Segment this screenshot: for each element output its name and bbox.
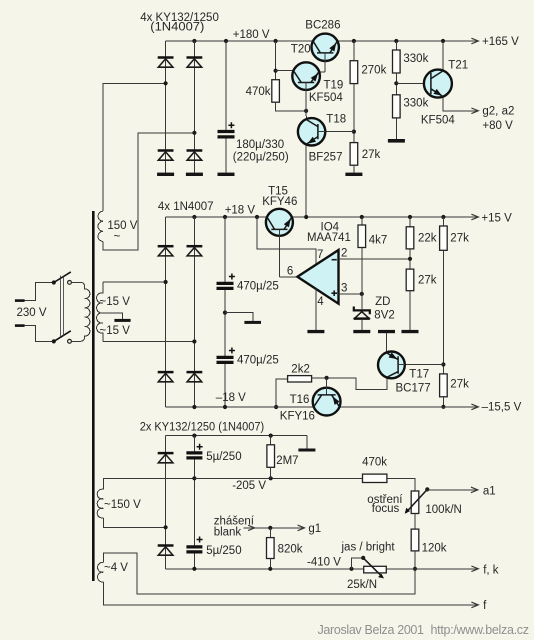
svg-text:+15 V: +15 V <box>481 212 512 224</box>
wire cap470-2 bottom <box>224 364 226 407</box>
wire cap 180u bottom <box>225 139 227 173</box>
capacitor 5u/250 upper <box>186 444 202 458</box>
node 120k / f,k <box>413 567 417 571</box>
wire 470k to focus pot <box>387 478 415 491</box>
svg-text:2: 2 <box>341 248 347 260</box>
zener diode ZD 8V2 <box>354 307 370 319</box>
transistor T18 (BF257) <box>298 118 325 145</box>
resistor 330k upper <box>393 50 401 73</box>
resistor 820k <box>267 538 275 559</box>
node trimmer left <box>349 567 353 571</box>
svg-text:470µ/25: 470µ/25 <box>237 281 279 293</box>
svg-text:g2, a2: g2, a2 <box>482 106 514 118</box>
wire opamp V+ (pin7) <box>257 217 316 264</box>
node 27k / -15.5V rail <box>441 405 445 409</box>
svg-text:~: ~ <box>114 231 121 243</box>
node pin3 / 4k7 / ZD <box>360 292 364 296</box>
svg-text:BC286: BC286 <box>305 20 340 32</box>
svg-text:27k: 27k <box>450 378 469 390</box>
wire -410V / f,k rail <box>166 568 478 570</box>
wire T21 collector <box>442 41 444 71</box>
wire trimmer wiper link <box>352 558 364 569</box>
resistor 27k middle <box>406 269 414 291</box>
svg-text:270k: 270k <box>361 65 386 77</box>
mains terminal L <box>15 299 25 302</box>
wire upper bridge right leg <box>193 41 195 173</box>
node pin2 divider <box>408 257 412 261</box>
resistor 470k <box>272 80 280 103</box>
wire 270k to T18 base node <box>353 84 355 143</box>
capacitor 470u/25 upper <box>217 274 235 289</box>
svg-text:blank: blank <box>214 527 242 539</box>
node upper bridge right AC input <box>192 131 196 135</box>
svg-text:http:/www.belza.cz: http:/www.belza.cz <box>431 623 530 637</box>
svg-text:KF504: KF504 <box>309 92 343 104</box>
wire -18V rail <box>166 406 314 408</box>
arrow blank injection <box>244 525 256 530</box>
ground ZD <box>353 330 370 333</box>
ground pin4 <box>307 330 324 333</box>
wire 22k-27k junction <box>409 249 411 269</box>
node middle bridge left AC <box>164 280 168 284</box>
wire 2M7 top <box>270 436 272 445</box>
svg-text:T16: T16 <box>290 394 310 406</box>
wire 27k right to T17 base node <box>442 250 444 374</box>
arrow output f,k <box>471 566 478 572</box>
wire T18 emitter to +15V rail <box>305 144 307 217</box>
wire 150V winding top to upper bridge left AC <box>103 83 166 211</box>
ground 27k divider <box>402 330 419 333</box>
svg-text:(1N4007): (1N4007) <box>150 21 204 33</box>
transistor T19 (KF504) <box>292 62 320 111</box>
svg-text:–18 V: –18 V <box>216 392 246 404</box>
resistor 270k <box>350 61 358 84</box>
svg-text:6: 6 <box>287 266 293 278</box>
svg-text:27k: 27k <box>450 233 469 245</box>
svg-text:4x 1N4007: 4x 1N4007 <box>158 201 214 213</box>
node rail-4k7 <box>360 215 364 219</box>
node rail-330k <box>394 39 398 43</box>
wire -205V rail <box>194 477 362 479</box>
svg-text:25k/N: 25k/N <box>347 579 377 591</box>
svg-text:5µ/250: 5µ/250 <box>206 545 241 557</box>
arrow output g2,a2 <box>471 108 478 114</box>
transistor T16 (KFY16) <box>313 378 341 416</box>
svg-text:150 V: 150 V <box>107 220 137 232</box>
transistor T20 (BC286) <box>312 34 339 72</box>
wire T21 base <box>396 82 424 84</box>
wire ~4V bottom to f rail <box>103 582 478 605</box>
wire 820k bottom <box>269 528 271 538</box>
svg-text:230 V: 230 V <box>17 307 47 319</box>
node lower left AC input <box>164 525 168 529</box>
svg-text:BF257: BF257 <box>309 151 343 163</box>
svg-text:KFY46: KFY46 <box>262 196 297 208</box>
wire cap470-1 top <box>224 217 226 282</box>
wire mains N to switch <box>25 326 54 342</box>
svg-text:(220µ/250): (220µ/250) <box>233 151 289 163</box>
wire middle bridge right leg <box>193 217 195 407</box>
wire T18 base <box>325 131 354 133</box>
mains terminal N <box>15 324 25 327</box>
wire 15V winding bottom to middle bridge right AC <box>103 341 194 343</box>
wire opamp V- (pin4) <box>315 289 317 330</box>
wire right leg bottom <box>193 554 195 569</box>
diode D4 <box>187 151 203 161</box>
capacitor 180u/330 <box>218 122 235 137</box>
wire ~150V bottom to lower rectifier left AC <box>103 518 165 528</box>
potentiometer 100k/N focus <box>405 489 428 513</box>
node middle bridge right AC <box>192 339 196 343</box>
wire T17 collector to T16 base node <box>327 377 388 389</box>
diode D9 <box>158 453 174 463</box>
transistor T21 (KF504) <box>424 70 452 98</box>
resistor 27k lower right <box>440 374 448 397</box>
wire T15 base to pin6 <box>279 276 297 278</box>
svg-text:ZD: ZD <box>375 296 390 308</box>
svg-text:330k: 330k <box>403 53 428 65</box>
wire top rail to ground <box>306 436 308 449</box>
resistor 2k2 <box>288 376 312 382</box>
node rail-27k right <box>441 215 445 219</box>
arrow output +15V <box>471 214 478 220</box>
svg-text:+165 V: +165 V <box>482 36 519 48</box>
svg-text:–15,5 V: –15,5 V <box>482 402 522 414</box>
resistor 4k7 <box>358 225 366 248</box>
svg-text:T19: T19 <box>324 80 344 92</box>
svg-text:KFY16: KFY16 <box>280 411 315 423</box>
wire 820k to -410V rail <box>269 559 271 569</box>
wire T17 emitter <box>386 333 388 353</box>
svg-text:470k: 470k <box>246 86 271 98</box>
node leg2 / -410V <box>192 567 196 571</box>
wire T21 emitter to g2 output <box>443 97 478 111</box>
svg-text:T20: T20 <box>291 44 311 56</box>
wire 27k to ground <box>409 291 411 330</box>
wire 330k to ground <box>395 118 397 139</box>
svg-text:330k: 330k <box>403 98 428 110</box>
node top rail leg2 <box>192 434 196 438</box>
wire -15.5V rail <box>339 406 478 408</box>
wire +15V rail <box>292 216 478 218</box>
wire T19 collector <box>276 70 294 72</box>
resistor 470k series (focus) <box>363 474 387 482</box>
svg-text:27k: 27k <box>418 274 437 286</box>
transistor T17 (BC177) <box>378 352 405 379</box>
svg-text:zhášení: zhášení <box>214 515 255 527</box>
wire ZD to ground <box>361 320 363 330</box>
svg-text:jas / bright: jas / bright <box>341 542 396 554</box>
transformer TR core <box>92 211 95 581</box>
svg-text:+18 V: +18 V <box>225 204 256 216</box>
wire cap 180u top <box>225 41 227 130</box>
svg-text:5µ/250: 5µ/250 <box>206 451 241 463</box>
node T18 base / 27k <box>352 130 356 134</box>
diode D1 <box>158 58 174 68</box>
wire T18 collector stub <box>305 111 307 120</box>
capacitor 470u/25 lower <box>217 348 235 363</box>
node rail-opamp supply <box>255 215 259 219</box>
diode D2 <box>187 58 203 68</box>
node cap470 / -18V <box>223 405 227 409</box>
svg-text:470k: 470k <box>362 456 387 468</box>
node 820k / -410V <box>268 567 272 571</box>
ground upper bridge left <box>157 173 174 176</box>
node 820k top <box>268 526 272 530</box>
svg-text:-410 V: -410 V <box>307 557 341 569</box>
transformer secondary winding ~4V <box>98 562 104 582</box>
wire 15V winding top to middle bridge left AC <box>103 281 166 283</box>
arrow output -15.5V <box>471 404 478 410</box>
wire a1 output <box>427 489 477 491</box>
ground caps midpoint <box>244 321 261 324</box>
svg-text:120k: 120k <box>422 542 447 554</box>
transformer primary winding 230V <box>71 282 90 341</box>
svg-text:~4 V: ~4 V <box>104 562 128 574</box>
node -205V junction <box>192 476 196 480</box>
svg-text:a1: a1 <box>483 485 496 497</box>
node T16 base <box>325 376 329 380</box>
node T21 base <box>394 81 398 85</box>
node rail-470k <box>274 39 278 43</box>
svg-text:2k2: 2k2 <box>291 364 310 376</box>
wire 4k7 top <box>361 217 363 225</box>
transistor T15 (KFY46) <box>266 209 293 277</box>
wire 270k top <box>353 41 355 61</box>
diode D10 <box>158 546 174 556</box>
svg-text:22k: 22k <box>418 233 437 245</box>
transformer secondary winding 150V (top) <box>98 211 103 241</box>
svg-text:f, k: f, k <box>483 564 499 576</box>
arrow output +165V <box>471 38 478 44</box>
resistor 330k lower <box>393 95 401 118</box>
node T19 base / T18 collector <box>304 109 308 113</box>
arrow output g1 <box>298 525 305 531</box>
wire 2k2 left leg <box>276 379 288 407</box>
svg-text:Jaroslav Belza 2001: Jaroslav Belza 2001 <box>318 623 425 637</box>
node 2M7 bottom <box>269 476 273 480</box>
node rail-T21 collector <box>441 39 445 43</box>
wire T19 emitter to T20 base <box>319 71 325 73</box>
wire upper bridge left leg <box>165 41 167 173</box>
arrow output f <box>471 602 478 608</box>
resistor 2M7 <box>267 445 275 468</box>
svg-text:T21: T21 <box>448 59 468 71</box>
wire T17 base <box>405 364 444 366</box>
svg-text:T18: T18 <box>326 114 346 126</box>
node 470k / T19 collector <box>274 69 278 73</box>
resistor 120k <box>411 529 419 551</box>
node 2k2 on -18V rail <box>274 405 278 409</box>
diode D7 <box>158 372 174 382</box>
wire 470k tap <box>275 41 277 80</box>
node top rail 2M7 <box>269 434 273 438</box>
resistor 27k right <box>440 226 448 250</box>
wire 15V center tap <box>103 313 123 319</box>
node rail-22k <box>408 215 412 219</box>
svg-text:focus: focus <box>372 503 400 515</box>
wire +165V rail <box>337 40 478 42</box>
trimmer 25k/N <box>363 558 386 579</box>
svg-text:~15 V: ~15 V <box>100 325 131 337</box>
ground lower rectifier <box>298 449 315 452</box>
op-amp IO4 MAA741 <box>297 250 338 304</box>
ground cap 180u <box>218 173 235 176</box>
node T17 base junction <box>441 362 445 366</box>
wire 330k junction <box>395 73 397 95</box>
wire 22k top <box>409 217 411 227</box>
wire focus pot to 120k <box>414 514 416 530</box>
svg-text:KF504: KF504 <box>421 115 455 127</box>
wire 4k7 bottom <box>361 248 363 310</box>
wire right leg mid <box>193 460 195 546</box>
svg-text:g1: g1 <box>308 523 321 535</box>
wire mains L to switch <box>25 283 54 301</box>
wire lower right leg top <box>193 436 195 452</box>
wire 27k lower to rail <box>442 397 444 407</box>
wire 2M7 bottom <box>270 467 272 478</box>
svg-text:T17: T17 <box>409 369 429 381</box>
ground T17 emitter <box>378 330 395 333</box>
svg-text:BC177: BC177 <box>396 383 431 395</box>
resistor 27k (T18) <box>350 143 358 166</box>
svg-text:8V2: 8V2 <box>374 310 394 322</box>
node leg2 / -18V <box>192 405 196 409</box>
wire 2k2 to T16 base node <box>312 377 327 379</box>
svg-text:2M7: 2M7 <box>276 455 298 467</box>
wire ~4V top to f,k node <box>103 553 415 594</box>
node rail-cap470 <box>223 215 227 219</box>
arrow output a1 <box>471 487 478 493</box>
svg-text:~15 V: ~15 V <box>100 296 131 308</box>
svg-text:~150 V: ~150 V <box>104 499 141 511</box>
node rail-cap <box>224 39 228 43</box>
svg-text:100k/N: 100k/N <box>425 504 461 516</box>
svg-text:MAA741: MAA741 <box>307 232 351 244</box>
ground center tap <box>114 319 130 322</box>
wire 27k to ground <box>353 165 355 172</box>
wire 150V winding bottom to upper bridge right AC <box>103 133 195 250</box>
wire 120k to f,k rail <box>414 551 416 569</box>
svg-text:180µ/330: 180µ/330 <box>236 139 284 151</box>
transformer secondary winding ~150V (lower) <box>97 489 103 518</box>
wire 27k right top <box>442 217 444 226</box>
node trimmer wiper <box>361 556 365 560</box>
svg-text:4k7: 4k7 <box>369 235 388 247</box>
svg-text:+180 V: +180 V <box>233 29 270 41</box>
wire pin2 to divider <box>339 258 411 260</box>
node T18 emitter junction <box>304 215 308 219</box>
wire g1 line <box>255 527 304 529</box>
wire pin3 to ZD node <box>339 293 362 295</box>
wire +18V rail <box>166 216 268 218</box>
svg-text:820k: 820k <box>278 544 303 556</box>
resistor 22k <box>406 227 414 249</box>
diode D3 <box>158 151 174 161</box>
svg-text:3: 3 <box>341 283 347 295</box>
ground 330k <box>388 139 405 143</box>
svg-text:2x KY132/1250 (1N4007): 2x KY132/1250 (1N4007) <box>140 422 265 434</box>
svg-text:4: 4 <box>317 296 324 308</box>
svg-text:+80 V: +80 V <box>482 120 513 132</box>
wire +180V rail <box>166 40 313 42</box>
node rail-leg2 (+18V) <box>192 215 196 219</box>
svg-text:470µ/25: 470µ/25 <box>237 355 279 367</box>
svg-text:27k: 27k <box>362 149 381 161</box>
node rail-leg2 <box>192 39 196 43</box>
wire ~150V top to lower rectifier <box>103 478 194 489</box>
diode D6 <box>187 246 203 256</box>
switch S1 pole 1 <box>52 272 72 285</box>
wire 330k chain top <box>395 41 397 50</box>
node rail-270k <box>352 39 356 43</box>
switch S1 linkage <box>60 276 63 337</box>
wire middle bridge left leg <box>165 217 167 407</box>
svg-text:-205 V: -205 V <box>232 480 266 492</box>
wire cap470-1 bottom <box>224 290 226 356</box>
wire lower left leg <box>165 436 167 569</box>
wire 470k to T19 base node <box>276 102 307 111</box>
ground upper bridge right <box>186 173 203 176</box>
wire midpoint to ground <box>225 313 253 321</box>
node caps midpoint <box>223 311 227 315</box>
node upper bridge left AC input <box>164 81 168 85</box>
diode D5 <box>158 246 174 256</box>
node focus wiper / a1 <box>425 487 429 491</box>
ground 27k <box>345 173 362 176</box>
wire lower rectifier top rail <box>166 435 307 437</box>
capacitor 5u/250 lower <box>186 537 202 552</box>
switch S1 pole 2 <box>52 331 72 344</box>
diode D8 <box>187 372 203 382</box>
transformer secondary winding 2x15V <box>97 282 103 342</box>
